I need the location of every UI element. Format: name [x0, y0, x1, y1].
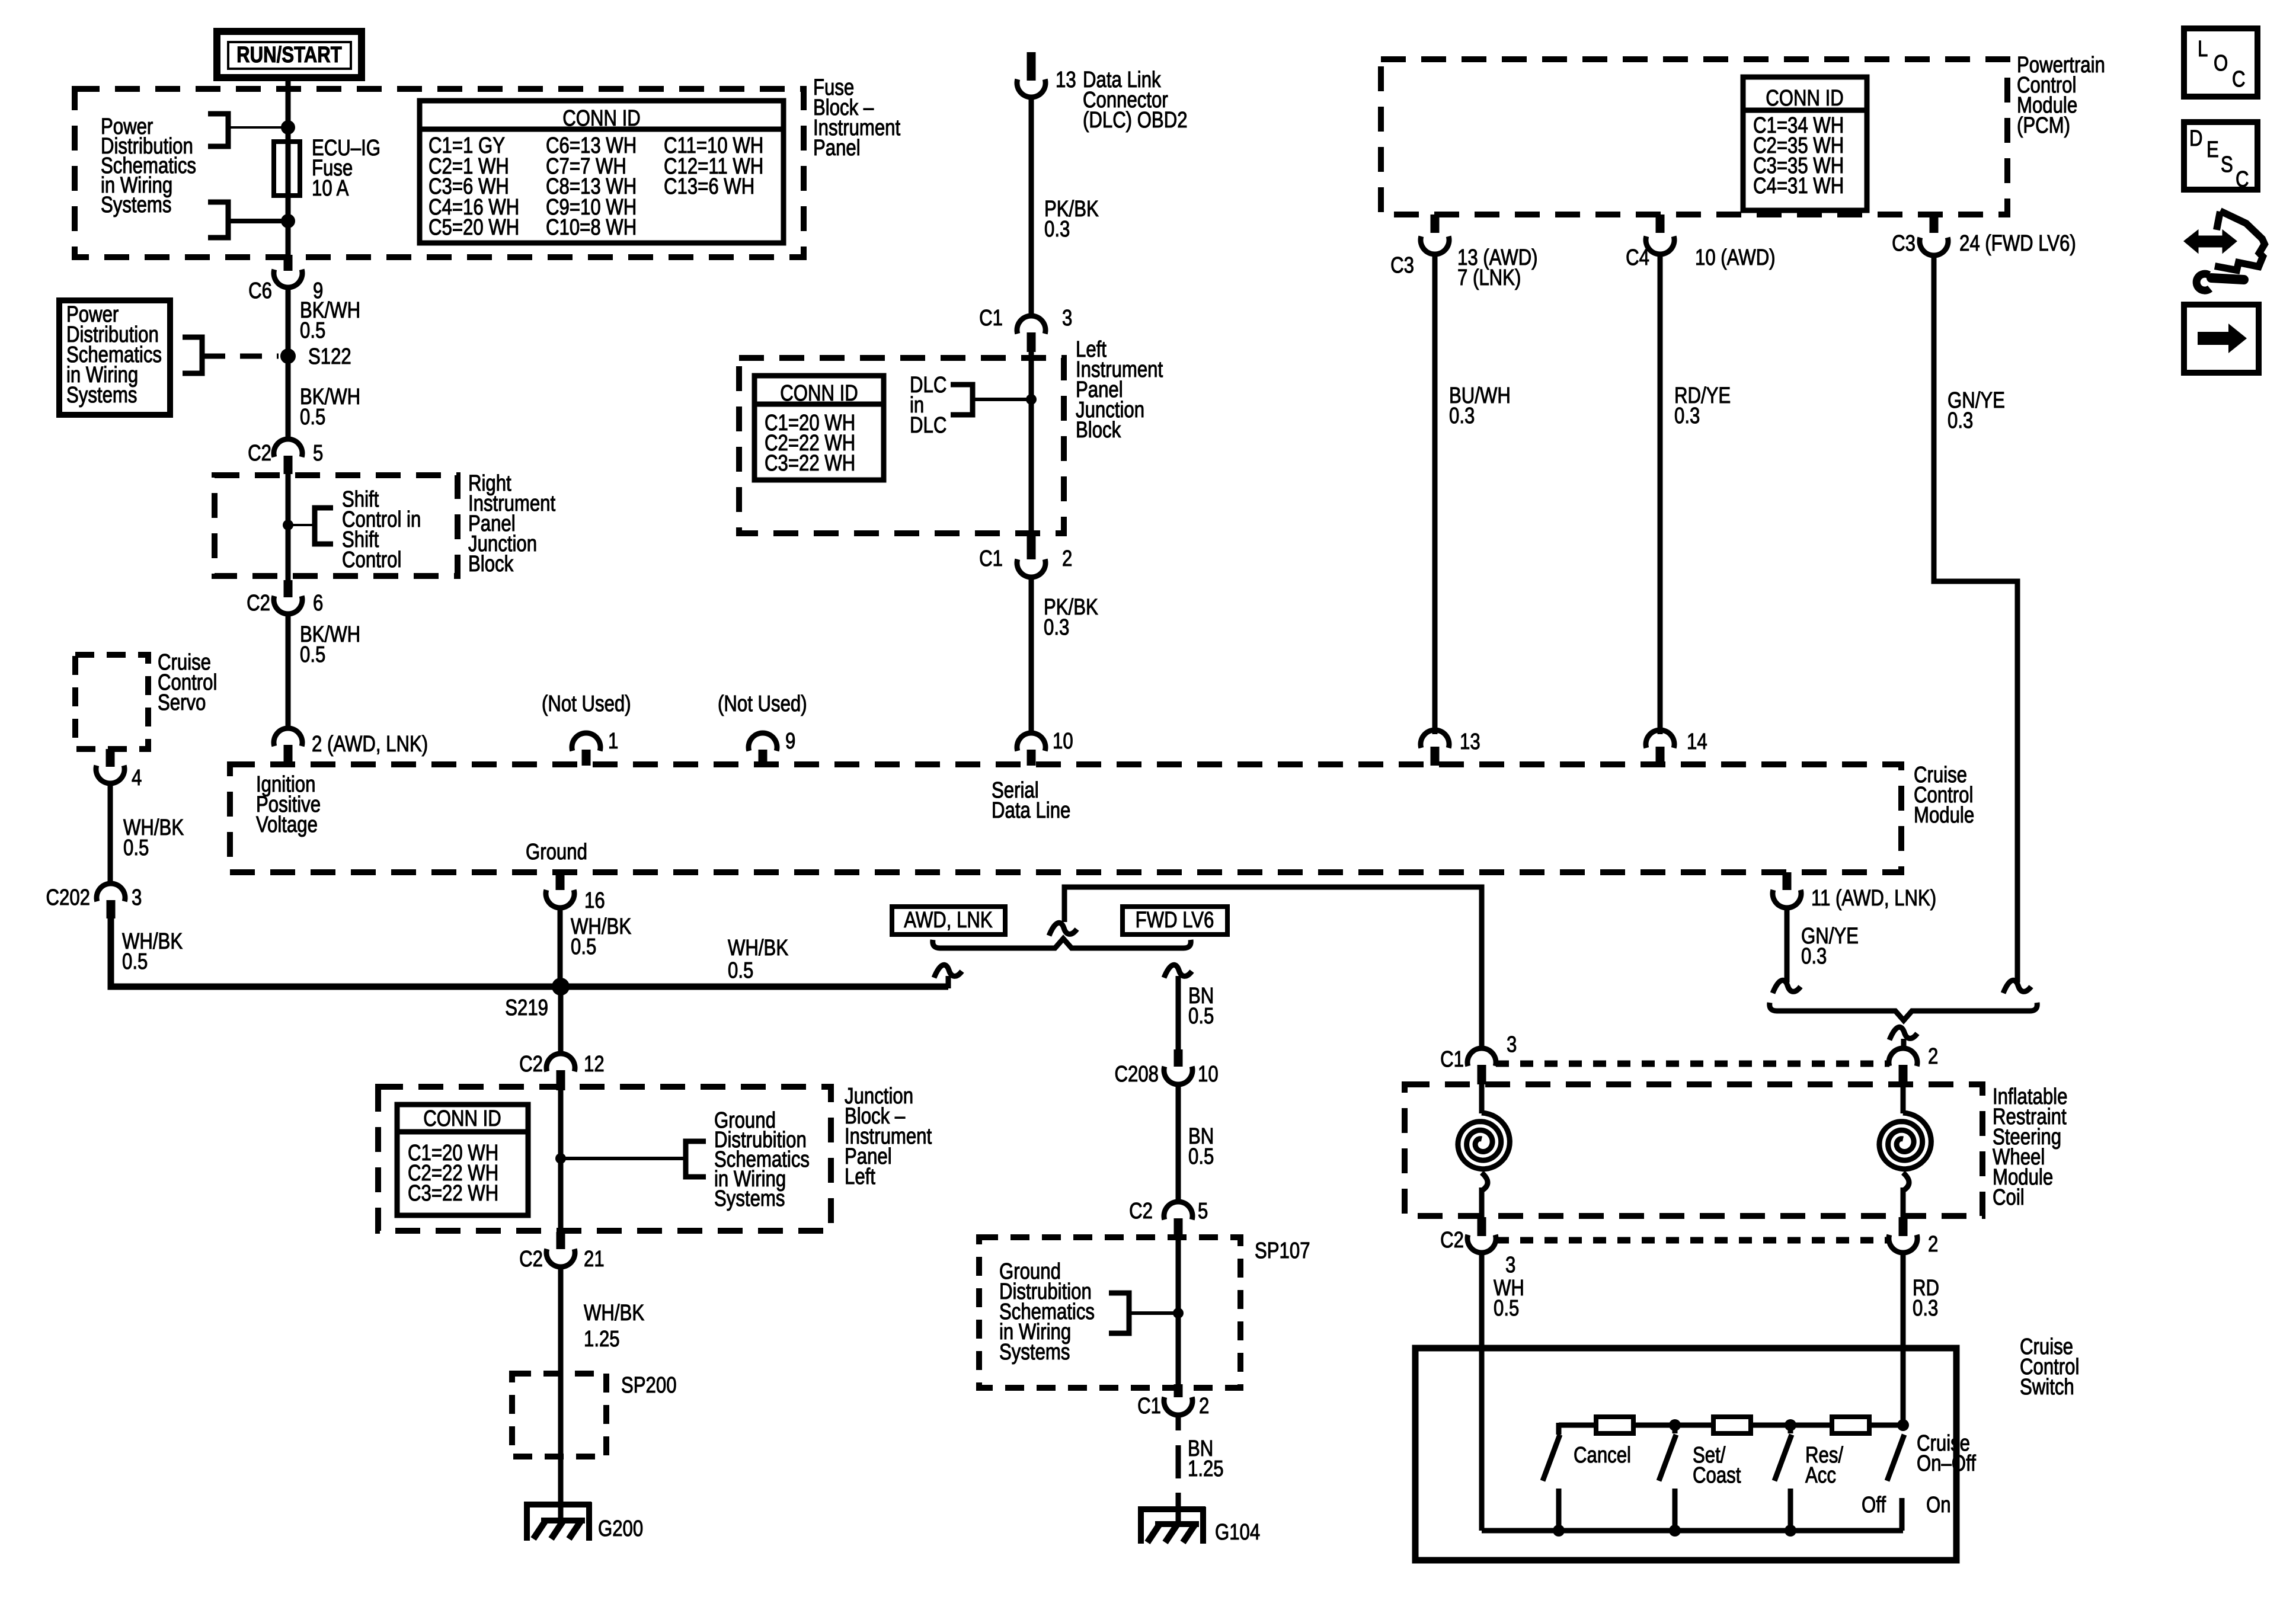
- svg-text:Block: Block: [1076, 418, 1121, 443]
- svg-text:1: 1: [608, 729, 618, 754]
- svg-text:7 (LNK): 7 (LNK): [1457, 265, 1521, 290]
- svg-text:L: L: [2198, 37, 2208, 62]
- svg-text:Ground: Ground: [526, 840, 587, 865]
- svg-text:(PCM): (PCM): [2017, 113, 2070, 138]
- svg-text:0.5: 0.5: [571, 934, 596, 959]
- connector 2 (AWD, LNK) cruise module: [274, 728, 428, 766]
- svg-text:Module: Module: [1914, 803, 1974, 828]
- svg-text:0.5: 0.5: [1494, 1296, 1519, 1321]
- wire through SP107: [1176, 1238, 1181, 1384]
- PCM connector C3 pin 24: [1892, 215, 2076, 256]
- label Res/Acc: [1805, 1443, 1843, 1488]
- svg-text:C1: C1: [1137, 1394, 1161, 1419]
- label GN/YE 0.3 (PCM): [1948, 388, 2005, 433]
- break curl below brace: [1889, 1027, 1917, 1040]
- svg-text:C1: C1: [1440, 1047, 1464, 1072]
- connector C2 pin 5: [248, 439, 323, 474]
- svg-text:WH/BK: WH/BK: [584, 1301, 644, 1326]
- svg-text:Systems: Systems: [714, 1186, 785, 1211]
- label WH/BK 0.5 (S219 line): [728, 936, 788, 983]
- wire C202 to S219 line: [111, 918, 948, 987]
- CONN ID table junction block left: [397, 1105, 528, 1215]
- svg-text:3: 3: [132, 885, 142, 910]
- svg-text:3: 3: [1507, 1032, 1517, 1057]
- svg-text:Data Line: Data Line: [992, 798, 1070, 823]
- switch top rail: [1559, 1423, 1903, 1435]
- cruise control module dashed box: [230, 764, 1901, 872]
- switch blade Cancel: [1543, 1435, 1560, 1531]
- label WH 0.5: [1494, 1276, 1524, 1321]
- label On: [1926, 1493, 1951, 1518]
- label Inflatable Restraint Steering Wheel Module Coil: [1993, 1084, 2067, 1210]
- label Cruise Control Module: [1914, 763, 1974, 828]
- svg-text:Control: Control: [342, 548, 401, 572]
- label Ground: [526, 840, 587, 865]
- label WH/BK 0.5 (pin16): [571, 914, 631, 959]
- svg-text:1.25: 1.25: [1188, 1457, 1224, 1481]
- connector (Not Used) pin 1: [542, 692, 631, 766]
- switch blade Res/Acc: [1774, 1425, 1792, 1531]
- svg-text:0.3: 0.3: [1044, 217, 1070, 242]
- svg-text:C: C: [2232, 67, 2246, 92]
- bracket power distribution lower: [208, 202, 288, 238]
- svg-text:1.25: 1.25: [584, 1327, 620, 1352]
- wire C2-21 to G200: [558, 1267, 564, 1521]
- svg-text:C1: C1: [979, 306, 1003, 331]
- label Cruise Control Switch: [2020, 1334, 2079, 1400]
- rail junction dots: [1669, 1419, 1909, 1431]
- power feed box RUN/START: [217, 31, 362, 78]
- label Junction Block - Instrument Panel Left: [845, 1084, 932, 1189]
- label Ground Distrubition Schematics in Wiring Systems (junction block): [714, 1108, 810, 1211]
- wire RD to switch: [1901, 1253, 1906, 1422]
- svg-text:C5=20 WH: C5=20 WH: [428, 215, 519, 240]
- brace ground split: [933, 939, 1191, 948]
- svg-text:AWD, LNK: AWD, LNK: [904, 908, 992, 933]
- svg-text:C10=8 WH: C10=8 WH: [546, 215, 637, 240]
- svg-text:C4=31 WH: C4=31 WH: [1753, 174, 1844, 199]
- wire RD/YE: [1658, 254, 1663, 734]
- connector C2 pin 6: [247, 580, 323, 616]
- junction block instrument panel left dashed box: [378, 1087, 831, 1231]
- wire WH to switch: [1479, 1253, 1485, 1531]
- connector C1 pin 2 (G104): [1137, 1384, 1209, 1419]
- svg-text:0.3: 0.3: [1044, 615, 1069, 640]
- svg-text:C2: C2: [1129, 1199, 1153, 1224]
- svg-text:On: On: [1926, 1493, 1951, 1518]
- switch blade Cruise On-Off: [1887, 1435, 1904, 1531]
- junction dot lower fuse tap: [281, 214, 295, 228]
- svg-text:C1: C1: [979, 546, 1003, 571]
- label RD 0.3: [1913, 1276, 1939, 1321]
- svg-text:10 A: 10 A: [312, 176, 349, 201]
- wire cruise switch feed: [1064, 887, 1482, 1048]
- connector C208 pin 10: [1115, 1049, 1219, 1087]
- connector pin 14 cruise module: [1646, 729, 1707, 766]
- svg-text:(Not Used): (Not Used): [718, 692, 807, 716]
- svg-text:O: O: [2214, 51, 2228, 76]
- fuse ECU-IG 10A: [274, 142, 300, 196]
- label BN 0.5 (upper): [1188, 984, 1214, 1029]
- svg-text:C4: C4: [1626, 245, 1649, 270]
- break curl switch feed: [1049, 923, 1077, 936]
- dashed wire to G104: [1176, 1415, 1181, 1524]
- svg-text:6: 6: [313, 591, 323, 616]
- icon vehicle/wrench: [2186, 211, 2265, 290]
- svg-text:0.5: 0.5: [123, 836, 149, 860]
- icon LOC box: [2184, 28, 2257, 97]
- SP200 dashed box: [512, 1373, 677, 1457]
- svg-text:Panel: Panel: [813, 136, 861, 161]
- connector coil C2 pin 3: [1440, 1217, 1515, 1278]
- CONN ID table left IP junction block: [754, 376, 884, 480]
- connector (Not Used) pin 9: [718, 692, 807, 766]
- svg-text:S122: S122: [308, 344, 351, 369]
- svg-text:Voltage: Voltage: [256, 812, 318, 837]
- svg-text:E: E: [2207, 137, 2219, 162]
- svg-text:C3: C3: [1390, 253, 1414, 278]
- svg-text:Coil: Coil: [1993, 1185, 2025, 1210]
- svg-text:C3=22 WH: C3=22 WH: [408, 1181, 498, 1206]
- DLC terminal pin 13: [1017, 52, 1188, 133]
- wire AWD branch: [946, 976, 951, 988]
- svg-text:21: 21: [584, 1247, 605, 1272]
- svg-text:16: 16: [584, 888, 605, 913]
- junction dot upper fuse tap: [281, 120, 295, 135]
- cruise control switch box: [1415, 1348, 1956, 1560]
- bracket S122 tap: [183, 337, 202, 373]
- break curl FWD branch: [1164, 965, 1192, 978]
- svg-text:(DLC) OBD2: (DLC) OBD2: [1083, 108, 1188, 133]
- label BN 0.5 (lower): [1188, 1124, 1214, 1169]
- svg-text:RUN/START: RUN/START: [236, 43, 342, 68]
- connector C1 pin 2 (left IP junction block): [979, 530, 1072, 577]
- svg-text:(Not Used): (Not Used): [542, 692, 631, 716]
- svg-text:SP200: SP200: [621, 1373, 677, 1398]
- svg-text:C2: C2: [1440, 1228, 1464, 1253]
- connector pin 13 cruise module: [1421, 729, 1480, 766]
- label BK/WH 0.5 (1): [300, 298, 360, 343]
- svg-text:0.3: 0.3: [1948, 408, 1973, 433]
- connector pin 11 (AWD, LNK): [1773, 872, 1936, 911]
- wire GN/YE from PCM: [1934, 255, 2017, 982]
- left IP junction block dashed box: [739, 358, 1064, 533]
- svg-text:0.5: 0.5: [1188, 1004, 1214, 1029]
- CONN ID table fuse block: [420, 101, 784, 243]
- wire servo to C202: [108, 783, 113, 885]
- wire FWD branch: [1176, 976, 1181, 1051]
- svg-text:Left: Left: [845, 1164, 875, 1189]
- connector coil C1 pin 3: [1440, 1032, 1517, 1084]
- break curl PCM wire: [2003, 980, 2031, 993]
- label Left Instrument Panel Junction Block: [1076, 337, 1163, 443]
- label PK/BK 0.3 (lower): [1044, 595, 1098, 640]
- svg-text:5: 5: [1198, 1199, 1208, 1224]
- svg-text:24 (FWD LV6): 24 (FWD LV6): [1959, 231, 2076, 256]
- svg-text:S219: S219: [505, 996, 548, 1020]
- wire C1-2 to pin 10: [1029, 577, 1034, 734]
- wire brace to coil pin 2: [1901, 1039, 1907, 1048]
- connector C1 pin 3 (left IP junction block): [979, 306, 1072, 352]
- label Cruise On-Off: [1917, 1431, 1976, 1476]
- svg-text:G200: G200: [598, 1516, 643, 1541]
- svg-text:0.5: 0.5: [300, 642, 325, 667]
- connector C2 pin 12: [519, 1052, 604, 1090]
- svg-text:C3: C3: [1892, 231, 1916, 256]
- connector pin 16 ground: [546, 872, 605, 913]
- coil left (spiral): [1458, 1084, 1510, 1217]
- icon arrow box: [2184, 305, 2259, 373]
- shift control junction block dashed box: [215, 475, 458, 576]
- svg-text:0.3: 0.3: [1449, 404, 1475, 428]
- svg-text:2 (AWD, LNK): 2 (AWD, LNK): [312, 732, 428, 757]
- powertrain control module dashed box: [1381, 59, 2007, 215]
- label BU/WH 0.3: [1449, 383, 1511, 428]
- svg-text:0.5: 0.5: [728, 958, 753, 983]
- connector serial data pin 10: [1017, 729, 1073, 766]
- SP107 dashed box: [979, 1237, 1310, 1388]
- label Right Instrument Panel Junction Block: [468, 471, 555, 577]
- svg-text:SP107: SP107: [1255, 1238, 1310, 1263]
- svg-text:Systems: Systems: [999, 1340, 1070, 1365]
- label Cancel: [1574, 1443, 1631, 1468]
- label Power Distribution Schematics in Wiring Systems (fuse box): [101, 114, 196, 217]
- brace GN/YE merge: [1770, 1003, 2038, 1020]
- dotted tie line C2 row: [1496, 1237, 1889, 1244]
- CONN ID table PCM: [1743, 77, 1867, 210]
- resistor set/coast: [1713, 1417, 1751, 1433]
- wire through shift box: [286, 474, 291, 580]
- ground G200: [524, 1502, 643, 1541]
- svg-text:0.5: 0.5: [122, 949, 148, 974]
- svg-text:10: 10: [1053, 729, 1073, 754]
- svg-text:0.3: 0.3: [1674, 404, 1700, 428]
- SP107 tap bracket: [1109, 1293, 1184, 1333]
- svg-text:CONN ID: CONN ID: [780, 381, 858, 406]
- wire C208 down: [1176, 1084, 1181, 1203]
- svg-text:Systems: Systems: [66, 383, 137, 408]
- svg-text:0.5: 0.5: [1188, 1144, 1214, 1169]
- svg-text:C6: C6: [248, 279, 272, 303]
- svg-text:0.3: 0.3: [1801, 944, 1827, 969]
- bracket power distribution upper: [208, 114, 288, 146]
- DLC in DLC tap: [910, 373, 1037, 438]
- junction block tap: [555, 1141, 706, 1177]
- label Powertrain Control Module (PCM): [2017, 53, 2105, 138]
- svg-text:10 (AWD): 10 (AWD): [1695, 245, 1776, 270]
- connector servo pin 4: [96, 749, 142, 790]
- svg-text:3: 3: [1505, 1253, 1515, 1278]
- inflatable restraint steering wheel module coil dashed box: [1405, 1084, 1982, 1216]
- connector coil pin 2 top: [1889, 1044, 1938, 1084]
- svg-text:13: 13: [1460, 729, 1480, 754]
- svg-text:3: 3: [1062, 306, 1072, 331]
- PCM connector C4 pin 10: [1626, 215, 1775, 270]
- switch blade Set/Coast: [1659, 1425, 1676, 1531]
- svg-text:13: 13: [1056, 68, 1076, 92]
- svg-text:Servo: Servo: [158, 690, 206, 715]
- switch bottom bus: [1482, 1525, 1903, 1537]
- label WH/BK 1.25: [584, 1301, 644, 1352]
- label BN 1.25: [1188, 1436, 1224, 1481]
- wire pin 11 down: [1785, 908, 1790, 982]
- svg-text:CONN ID: CONN ID: [562, 106, 641, 131]
- svg-text:C2: C2: [519, 1247, 543, 1272]
- power distribution schematics box (solid): [59, 300, 170, 415]
- svg-text:4: 4: [132, 766, 142, 790]
- dashed tap to S122: [203, 354, 279, 359]
- label BK/WH 0.5 (3): [300, 622, 360, 667]
- svg-text:FWD LV6: FWD LV6: [1136, 908, 1214, 933]
- svg-text:Cancel: Cancel: [1574, 1443, 1631, 1468]
- wire DLC down: [1029, 97, 1034, 317]
- splice S122: [280, 344, 351, 369]
- wire through left IP junction block: [1029, 344, 1034, 550]
- dotted tie line C1 row: [1496, 1061, 1889, 1067]
- break curl AWD branch: [934, 965, 962, 978]
- resistor res/acc: [1832, 1417, 1869, 1433]
- svg-text:11 (AWD, LNK): 11 (AWD, LNK): [1811, 886, 1936, 911]
- boxed label AWD, LNK: [892, 907, 1005, 934]
- svg-text:5: 5: [313, 441, 323, 466]
- svg-text:On–Off: On–Off: [1917, 1451, 1976, 1476]
- wire pin16 to S219: [558, 908, 563, 987]
- label Ground Distrubition Schematics in Wiring Systems (SP107): [999, 1259, 1095, 1365]
- svg-text:0.5: 0.5: [300, 405, 325, 430]
- connector C202 pin 3: [46, 884, 142, 918]
- coil right (spiral): [1879, 1084, 1932, 1217]
- wire ignition feed: [286, 78, 291, 256]
- wire S219 to C2-12: [558, 987, 564, 1055]
- label WH/BK 0.5 (servo): [123, 815, 184, 860]
- svg-text:Off: Off: [1862, 1493, 1886, 1518]
- svg-text:2: 2: [1928, 1044, 1938, 1069]
- connector C2 pin 5 (SP107): [1129, 1199, 1208, 1238]
- break curl pin 11 wire: [1773, 980, 1801, 993]
- svg-text:Acc: Acc: [1805, 1463, 1836, 1488]
- label Set/Coast: [1693, 1443, 1741, 1488]
- shift control tap: [283, 487, 421, 572]
- svg-text:0.3: 0.3: [1913, 1296, 1938, 1321]
- label BK/WH 0.5 (2): [300, 385, 360, 430]
- svg-text:S: S: [2221, 152, 2233, 177]
- svg-text:Switch: Switch: [2020, 1375, 2074, 1400]
- svg-text:WH/BK: WH/BK: [728, 936, 788, 961]
- svg-text:C2: C2: [248, 441, 271, 466]
- boxed label FWD LV6: [1123, 907, 1227, 934]
- svg-text:C3=22 WH: C3=22 WH: [765, 451, 855, 476]
- fuse block - instrument panel dashed box: [75, 89, 804, 257]
- label Serial Data Line: [992, 778, 1070, 823]
- connector C2 pin 21: [519, 1232, 604, 1272]
- svg-text:C208: C208: [1115, 1062, 1159, 1087]
- PCM connector C3 pins 13/7: [1390, 215, 1537, 290]
- svg-text:2: 2: [1062, 546, 1072, 571]
- label ECU-IG Fuse 10 A: [312, 136, 380, 201]
- svg-text:Block: Block: [468, 552, 514, 577]
- svg-text:C2: C2: [519, 1052, 543, 1077]
- svg-text:9: 9: [785, 729, 795, 754]
- svg-text:C2: C2: [247, 591, 270, 616]
- wire C2-6 down: [286, 613, 291, 729]
- label Off: [1862, 1493, 1886, 1518]
- resistor cancel: [1596, 1417, 1633, 1433]
- svg-text:Systems: Systems: [101, 193, 171, 217]
- cruise control servo dashed box: [75, 650, 217, 749]
- svg-text:10: 10: [1198, 1062, 1219, 1087]
- label Fuse Block - Instrument Panel: [813, 75, 900, 161]
- svg-text:D: D: [2189, 126, 2203, 151]
- svg-text:14: 14: [1687, 729, 1707, 754]
- connector coil C2 pin 2: [1889, 1217, 1938, 1257]
- svg-text:Coast: Coast: [1693, 1463, 1741, 1488]
- svg-text:DLC: DLC: [910, 413, 946, 438]
- label RD/YE 0.3: [1674, 383, 1731, 428]
- svg-text:CONN ID: CONN ID: [423, 1106, 501, 1131]
- svg-text:C202: C202: [46, 885, 90, 910]
- svg-text:C13=6 WH: C13=6 WH: [664, 174, 754, 199]
- label Ignition Positive Voltage: [256, 772, 321, 837]
- svg-text:C: C: [2236, 167, 2249, 192]
- icon DESC box: [2184, 122, 2257, 192]
- splice S219: [505, 978, 570, 1020]
- svg-text:12: 12: [584, 1052, 605, 1077]
- svg-text:2: 2: [1199, 1394, 1209, 1419]
- wire BU/WH: [1432, 254, 1438, 734]
- wire C6 to C2: [286, 287, 291, 439]
- svg-text:CONN ID: CONN ID: [1766, 86, 1844, 111]
- svg-text:G104: G104: [1215, 1520, 1260, 1545]
- label PK/BK 0.3 (upper): [1044, 197, 1099, 242]
- wire through junction block: [558, 1089, 564, 1232]
- connector C6 pin 9: [248, 255, 323, 303]
- svg-text:2: 2: [1928, 1232, 1938, 1257]
- ground G104: [1138, 1507, 1260, 1545]
- label WH/BK 0.5 (C202): [122, 929, 183, 974]
- svg-text:0.5: 0.5: [300, 318, 325, 343]
- label GN/YE 0.3 (pin 11): [1801, 924, 1859, 969]
